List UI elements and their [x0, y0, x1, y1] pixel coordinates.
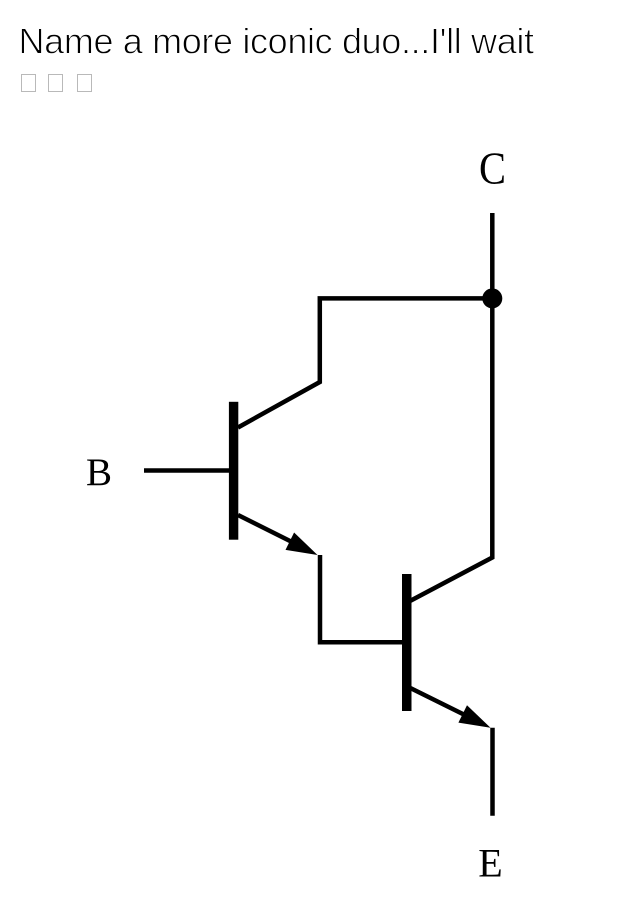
missing-emoji box 2: [48, 74, 63, 92]
svg-text:C: C: [479, 143, 506, 194]
wire: base lead of Q1: [144, 468, 229, 473]
wire: emitter lead to E: [490, 728, 495, 816]
transistor Q1 base bar: [229, 402, 238, 540]
transistor Q2 base bar: [402, 574, 412, 711]
junction dot at node C rail: [482, 288, 502, 308]
wire: C lead, right vertical rail, Q2 collector diagonal: [410, 213, 492, 601]
transistor Q2 emitter diagonal: [410, 688, 481, 723]
transistor Q1 emitter diagonal: [238, 515, 308, 550]
transistor Q2 emitter arrowhead: [458, 705, 490, 728]
wire: Q1 emitter to Q2 base: [320, 555, 403, 642]
svg-text:E: E: [478, 841, 502, 886]
post title text: [0, 0, 640, 70]
transistor Q1 emitter arrowhead: [286, 533, 318, 556]
missing-emoji box 1: [21, 74, 36, 92]
missing-emoji box 3: [77, 74, 92, 92]
wire: top horizontal, vertical drop, Q1 collector diagonal: [238, 298, 492, 427]
svg-text:B: B: [86, 451, 112, 494]
